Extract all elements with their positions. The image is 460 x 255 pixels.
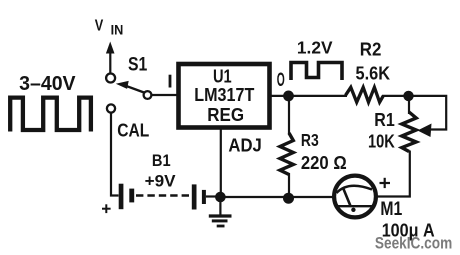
R1 wiper arrowhead [418, 124, 432, 138]
wire R3 to bottom rail [288, 173, 290, 195]
label meter plus [380, 178, 391, 188]
resistor R3 [280, 133, 293, 175]
svg-text:B1: B1 [152, 152, 171, 170]
meter M1 chord [337, 205, 374, 207]
svg-text:IN: IN [111, 23, 124, 38]
wire switch throw to U1 input [152, 94, 179, 96]
battery B1 left short plate [129, 189, 134, 203]
wire junction down to ground [219, 197, 221, 215]
svg-text:R3: R3 [301, 130, 319, 150]
resistor R2 [346, 87, 384, 102]
pin label I [169, 75, 172, 88]
svg-text:R2: R2 [360, 39, 382, 60]
potentiometer R1 [402, 112, 416, 152]
wire R1 bottom to meter rail [377, 151, 410, 197]
node R2/R1 junction [403, 91, 413, 101]
wire R2 to node [382, 95, 405, 97]
input square wave symbol [10, 98, 91, 132]
wire node to wiper loop [409, 96, 447, 130]
wire CAL terminal to battery positive [111, 113, 119, 196]
svg-text:5.6K: 5.6K [356, 63, 391, 83]
CAL terminal contact [107, 104, 115, 112]
switch S1 pole contact [106, 74, 115, 83]
svg-text:R1: R1 [374, 110, 395, 130]
svg-text:10K: 10K [368, 130, 395, 151]
wire node O down to R3 [288, 96, 290, 134]
svg-text:+9V: +9V [145, 171, 177, 190]
meter M1 needle [343, 189, 350, 206]
meter M1 body [334, 176, 376, 218]
svg-text:SeekIC.com: SeekIC.com [375, 235, 452, 253]
svg-text:1.2V: 1.2V [297, 37, 333, 57]
VIN arrow terminal [106, 42, 115, 74]
battery B1 left long plate [119, 184, 124, 210]
label VIN [95, 17, 124, 37]
svg-text:LM317T: LM317T [194, 85, 254, 105]
output square wave symbol [291, 63, 342, 81]
svg-text:M1: M1 [380, 199, 402, 220]
switch S1 throw contact [144, 91, 152, 99]
svg-text:CAL: CAL [117, 120, 149, 140]
wire node down to R1 [408, 96, 410, 114]
svg-text:220 Ω: 220 Ω [301, 153, 347, 173]
svg-text:O: O [277, 69, 285, 91]
meter M1 pivot dot [351, 208, 355, 212]
meter M1 scale arc [337, 186, 373, 193]
wire U1 output to R2 [271, 95, 347, 97]
battery B1 right short plate [202, 190, 206, 204]
svg-text:3–40V: 3–40V [19, 73, 76, 95]
svg-text:ADJ: ADJ [228, 134, 261, 155]
svg-text:S1: S1 [128, 54, 148, 75]
node battery/ADJ junction [215, 192, 226, 203]
regulator U1 box [179, 64, 270, 128]
node R3 bottom [283, 193, 294, 204]
node output O [283, 91, 294, 102]
wire U1 ADJ pin down to junction [220, 129, 222, 194]
switch S1 arm with arrowhead [116, 81, 144, 93]
ground symbol [209, 216, 232, 226]
label battery plus [102, 204, 111, 213]
battery B1 dashed link [136, 194, 190, 196]
wire bottom rail junction to meter [220, 196, 336, 198]
svg-text:V: V [95, 17, 104, 34]
wire battery to ground node [206, 195, 218, 197]
svg-text:U1: U1 [213, 67, 232, 87]
battery B1 right long plate [192, 184, 197, 209]
svg-text:REG: REG [207, 105, 244, 125]
